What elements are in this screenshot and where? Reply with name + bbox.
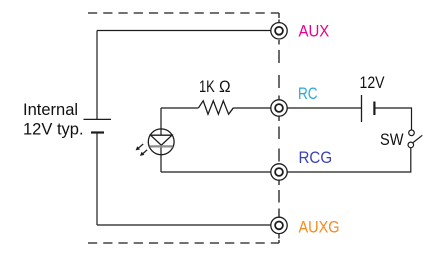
svg-text:1K: 1K — [199, 78, 215, 96]
LED D1 circle — [148, 129, 174, 155]
switch SW blade — [413, 135, 422, 142]
svg-text:Internal: Internal — [23, 101, 78, 119]
svg-text:Ω: Ω — [219, 78, 231, 96]
svg-text:RC: RC — [298, 85, 318, 103]
wire bottom: battery - to AUXG — [97, 224, 279, 226]
svg-text:RCG: RCG — [299, 149, 333, 167]
terminal RC — [271, 100, 287, 116]
svg-text:AUXG: AUXG — [299, 218, 340, 236]
battery B1 internal short plate — [91, 131, 104, 133]
LED D1 light arrow lower — [140, 150, 147, 156]
battery B2 12V short plate — [373, 102, 375, 116]
wire LED bottom to RCG terminal — [161, 171, 279, 173]
wire left vertical lower — [96, 133, 98, 226]
switch SW top contact — [409, 130, 415, 136]
dashed enclosure border right edge — [278, 13, 280, 243]
terminal AUXG — [271, 217, 287, 233]
wire left vertical upper — [96, 31, 98, 120]
terminal RCG — [271, 164, 287, 180]
switch SW bottom contact — [408, 142, 414, 148]
svg-text:12V typ.: 12V typ. — [23, 121, 84, 139]
LED D1 triangle — [151, 135, 172, 145]
wire RC terminal to external battery — [279, 107, 362, 109]
LED D1 cathode bar — [150, 145, 173, 147]
wire resistor to RC terminal — [233, 107, 279, 109]
wire LED vertical through D1 — [160, 108, 162, 172]
svg-text:AUX: AUX — [299, 22, 330, 40]
wire top: battery + to AUX — [97, 30, 279, 32]
dashed enclosure border bottom edge — [88, 242, 279, 244]
LED D1 light arrow upper — [136, 144, 144, 150]
label Internal 12V typ. — [23, 101, 84, 139]
wire LED top to resistor — [161, 107, 199, 109]
battery B1 internal long plate — [84, 118, 112, 120]
svg-text:12V: 12V — [360, 74, 385, 92]
dashed enclosure border top edge — [88, 12, 279, 14]
svg-text:SW: SW — [380, 131, 404, 149]
wire switch to RCG terminal — [287, 148, 411, 172]
resistor R1 zigzag — [199, 101, 234, 114]
battery B2 12V long plate — [361, 95, 363, 122]
terminal AUX — [271, 23, 287, 39]
wire battery to switch — [374, 108, 411, 130]
